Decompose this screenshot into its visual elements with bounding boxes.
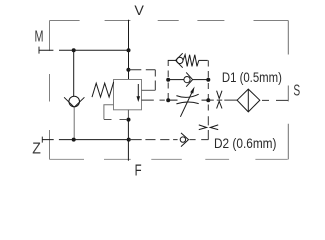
wire S line dashes left of filter	[209, 99, 237, 101]
enclosure top edge	[50, 20, 289, 22]
wire S line dashes right of filter	[262, 99, 288, 101]
check valve CV2 seat	[186, 72, 192, 86]
enclosure left edge bottom segment	[49, 74, 51, 159]
check valve CV3 ball	[180, 137, 185, 142]
node block left upper	[166, 78, 170, 82]
filter FL1 inner line	[247, 89, 249, 112]
node junction drain loop	[127, 118, 131, 122]
wire valve right port to block (dashed)	[142, 99, 169, 101]
enclosure bottom edge	[50, 158, 288, 160]
throttle TH1 line	[168, 99, 208, 101]
enclosure left edge top segment	[49, 21, 51, 51]
port M tick	[38, 47, 40, 54]
port M wire	[39, 49, 129, 51]
svg-text:M: M	[35, 29, 44, 46]
valve U1 arrow shaft	[137, 84, 139, 97]
throttle TH1 upper arc	[176, 94, 198, 97]
port V wire	[128, 20, 130, 80]
wire valve bottom port	[127, 110, 129, 120]
relief valve RV1 seat	[176, 53, 183, 67]
relief valve RV1 right lead	[199, 59, 208, 61]
node junction M x V	[127, 48, 131, 52]
check valve CV1 ball	[69, 96, 80, 107]
relief valve RV1 spring	[183, 55, 199, 67]
relief valve RV1 ball	[177, 57, 183, 63]
wire right vertical down to D2 (dashed)	[207, 105, 209, 140]
valve U1 body square	[114, 80, 142, 110]
svg-text:Z: Z	[32, 141, 41, 158]
valve U1 drain pilot loop	[104, 105, 114, 120]
node block right upper	[206, 78, 210, 82]
orifice D1 chevron bottom	[217, 101, 222, 108]
throttle TH1 lower arc	[176, 102, 198, 104]
svg-text:V: V	[134, 2, 144, 18]
relief valve RV1 left lead	[168, 59, 176, 61]
wire below CV1	[73, 107, 75, 139]
orifice D2 chevron right	[210, 125, 218, 130]
node block left lower	[166, 98, 170, 102]
block right vertical (dashed)	[207, 60, 209, 99]
check valve CV1 seat	[64, 97, 84, 107]
port F wire	[127, 140, 129, 161]
port Z wire	[42, 139, 129, 141]
port Z tick	[41, 137, 43, 143]
throttle TH1 arrow	[180, 93, 191, 117]
node block right lower	[206, 98, 210, 102]
wire D2 check line (dashed)	[129, 139, 178, 141]
svg-text:S: S	[293, 83, 300, 100]
valve U1 spring	[92, 82, 114, 97]
orifice D1 chevron top	[217, 91, 222, 99]
wire CV3 to D2 line (dashed)	[190, 139, 209, 141]
node junction M x check branch	[72, 48, 76, 52]
check valve CV2 right lead	[193, 79, 209, 81]
valve U1 arrow head	[137, 96, 141, 102]
svg-text:D2 (0.6mm): D2 (0.6mm)	[214, 135, 277, 151]
valve U1 right pilot line	[128, 69, 155, 71]
orifice D2 chevron left	[199, 125, 207, 130]
check valve CV3 seat	[181, 133, 189, 147]
block left vertical (dashed)	[167, 60, 169, 99]
filter FL1 diamond	[237, 89, 260, 112]
node junction pilot branch	[126, 68, 130, 72]
svg-text:D1 (0.5mm): D1 (0.5mm)	[222, 69, 282, 85]
enclosure right edge	[287, 21, 289, 160]
check valve CV2 ball	[184, 77, 190, 83]
svg-text:F: F	[135, 163, 142, 180]
node junction Z x F	[127, 138, 131, 142]
node junction Z x check branch	[72, 138, 76, 142]
wire check branch vertical	[73, 50, 75, 96]
check valve CV2 left lead	[168, 79, 184, 81]
